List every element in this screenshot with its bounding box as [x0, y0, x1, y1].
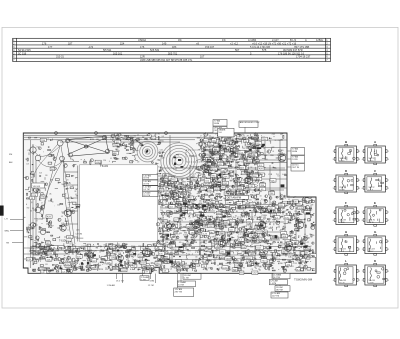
wire: [260, 192, 262, 194]
svg-text:R42: R42: [190, 221, 193, 223]
boxed label: [218, 208, 226, 212]
wire: [245, 167, 248, 170]
svg-text:165 161: 165 161: [113, 51, 123, 55]
resistor R87: [202, 198, 205, 201]
wire: [24, 258, 55, 260]
transistor Q177: [296, 257, 300, 261]
component value row: [32, 269, 148, 271]
resistor R81: [218, 181, 220, 182]
svg-text:22K: 22K: [186, 259, 188, 261]
junction: [223, 239, 226, 242]
resistor R22: [133, 150, 134, 152]
transistor Q103: [220, 245, 223, 248]
wire: [272, 229, 274, 232]
svg-text:150: 150: [312, 235, 314, 237]
wire: [247, 249, 249, 250]
svg-text:R9: R9: [243, 268, 245, 270]
capacitor C8: [33, 183, 36, 184]
resistor R141: [285, 174, 287, 177]
resistor R135: [256, 161, 259, 162]
wire: [195, 248, 197, 250]
wire: [51, 156, 55, 159]
resistor R119: [196, 182, 199, 185]
junction: [199, 258, 202, 261]
wire: [168, 212, 171, 214]
svg-text:507: 507: [235, 48, 240, 52]
wire: [191, 233, 193, 235]
wire: [216, 231, 220, 233]
capacitor C36: [256, 263, 258, 266]
component block: [27, 227, 31, 229]
transistor Q46: [245, 250, 248, 253]
wire: [218, 268, 221, 270]
boxed label: [244, 160, 250, 164]
wire: [197, 188, 199, 190]
wire: [35, 160, 37, 250]
capacitor C14: [120, 144, 123, 146]
wire: [176, 202, 179, 203]
junction: [25, 203, 28, 206]
transistor Q104: [290, 205, 294, 209]
capacitor C94: [162, 205, 165, 207]
boxed label: [233, 259, 241, 263]
junction: [309, 260, 312, 263]
boxed label: [210, 164, 216, 168]
component block: [256, 148, 259, 151]
wire: [209, 218, 211, 221]
resistor R4: [28, 137, 30, 138]
transistor Q98: [209, 161, 212, 164]
svg-text:6.8: 6.8: [30, 211, 32, 213]
wire: [220, 197, 221, 199]
wire: [157, 173, 160, 175]
boxed label: [188, 211, 194, 215]
junction: [294, 233, 297, 236]
component block: [209, 254, 212, 256]
wire: [275, 196, 281, 198]
wire: [240, 255, 243, 257]
capacitor C19: [131, 149, 134, 150]
component block: [41, 143, 43, 145]
svg-text:D6: D6: [203, 174, 205, 176]
wire: [112, 140, 136, 150]
svg-text:560: 560: [186, 249, 188, 251]
boxed label: [255, 225, 260, 229]
svg-text:-174: -174: [88, 45, 94, 49]
resistor R88: [285, 245, 286, 248]
wire: [44, 177, 46, 180]
wire: [179, 268, 181, 271]
transistor Q150: [204, 133, 208, 137]
transistor Q91: [177, 269, 181, 273]
svg-text:1K: 1K: [181, 220, 183, 222]
svg-text:6.8: 6.8: [62, 162, 64, 164]
svg-text:C31: C31: [266, 254, 269, 256]
wire: [155, 263, 158, 265]
resistor R138: [232, 159, 234, 160]
svg-text:AM: AM: [9, 161, 12, 164]
resistor R68: [163, 197, 166, 200]
capacitor C64: [176, 210, 178, 213]
L1 core dot: [146, 150, 149, 153]
dial cord wire: [44, 160, 63, 206]
junction: [217, 178, 220, 181]
junction: [184, 265, 187, 268]
wire: [239, 146, 241, 148]
wire: [119, 133, 121, 136]
wire: [286, 203, 288, 205]
junction: [245, 260, 248, 263]
wire: [210, 260, 212, 262]
svg-text:12V AM: 12V AM: [175, 288, 183, 291]
component block: [193, 226, 196, 229]
component block: [212, 177, 215, 179]
transistor Q132: [250, 259, 253, 262]
transistor Q180: [258, 229, 261, 232]
wire: [262, 266, 265, 268]
resistor R95: [245, 235, 246, 237]
svg-text:560: 560: [206, 270, 208, 272]
svg-text:3.8M: 3.8M: [150, 281, 155, 283]
transistor Q151: [160, 199, 163, 202]
junction: [193, 200, 196, 203]
wire: [220, 163, 222, 165]
svg-text:100: 100: [219, 141, 222, 143]
junction: [194, 183, 197, 186]
junction: [268, 227, 271, 230]
svg-text:TR4: TR4: [202, 262, 205, 264]
resistor R128: [256, 139, 257, 142]
wire: [161, 184, 163, 186]
svg-text:330: 330: [112, 249, 114, 251]
capacitor C31: [273, 253, 275, 256]
svg-text:0.01: 0.01: [118, 257, 121, 259]
capacitor C73: [166, 196, 168, 199]
wire: [293, 255, 296, 257]
transistor Q172: [235, 222, 238, 225]
svg-text:5%: 5%: [248, 161, 251, 163]
svg-text:100: 100: [166, 200, 168, 202]
wire: [227, 175, 229, 178]
wire: [134, 158, 137, 160]
svg-text:4: 4: [362, 159, 363, 161]
capacitor C143: [167, 238, 170, 240]
resistor R73: [211, 152, 212, 155]
wire: [159, 142, 161, 144]
wire: [225, 136, 227, 139]
wire: [299, 261, 302, 263]
svg-text:2.2K: 2.2K: [166, 190, 169, 192]
wire: [189, 266, 191, 268]
junction: [207, 219, 210, 222]
junction: [202, 145, 205, 148]
component block: [209, 174, 213, 176]
capacitor C130: [221, 256, 223, 259]
svg-text:0.5: 0.5: [228, 207, 230, 209]
wire: [226, 170, 228, 173]
junction: [305, 210, 308, 213]
svg-text:7: 7: [359, 280, 360, 282]
wire: [188, 231, 282, 233]
component block: [245, 212, 248, 214]
wire: [226, 269, 229, 272]
resistor R21: [90, 161, 91, 164]
boxed label: [191, 178, 197, 182]
wire: [179, 218, 182, 220]
svg-text:100: 100: [225, 227, 227, 229]
component block: [222, 239, 225, 241]
transistor Q175: [170, 202, 172, 204]
svg-text:4.7K: 4.7K: [127, 266, 130, 268]
svg-text:C7: C7: [100, 247, 102, 249]
transistor Q37: [151, 162, 153, 164]
svg-text:1M: 1M: [197, 252, 199, 254]
component block: [53, 238, 56, 240]
capacitor C74: [299, 213, 302, 215]
wire: [243, 252, 246, 255]
transistor Q79: [201, 184, 204, 187]
capacitor C55: [238, 144, 239, 147]
resistor R19: [117, 146, 119, 147]
resistor R161: [210, 188, 213, 189]
svg-text:0.5: 0.5: [265, 229, 267, 231]
wire: [258, 250, 260, 251]
wire: [24, 253, 70, 255]
component block: [240, 185, 244, 187]
wire: [10, 230, 23, 232]
junction: [199, 141, 202, 144]
wire: [230, 141, 232, 144]
wire: [201, 221, 204, 223]
junction: [278, 258, 281, 261]
wire: [285, 252, 288, 255]
resistor R126: [216, 177, 219, 180]
wire: [248, 137, 250, 140]
wire: [231, 192, 233, 194]
junction: [51, 138, 54, 141]
svg-text:1.26AM: 1.26AM: [178, 281, 186, 284]
junction: [31, 150, 34, 153]
junction: [163, 242, 166, 245]
transistor Q73: [273, 210, 276, 213]
transistor Q65: [188, 200, 190, 202]
svg-text:2: 2: [362, 280, 363, 282]
wire: [224, 176, 225, 178]
wire: [237, 168, 239, 170]
wire: [202, 234, 204, 237]
resistor R105: [253, 146, 255, 147]
svg-text:750: 750: [46, 196, 48, 198]
svg-text:6: 6: [333, 220, 334, 222]
svg-text:TR4: TR4: [205, 146, 208, 148]
junction: [294, 240, 297, 243]
wire: [196, 172, 198, 174]
resistor R2: [32, 258, 35, 259]
resistor R83: [207, 260, 210, 261]
wire: [182, 181, 184, 184]
component block: [131, 142, 134, 144]
svg-text:R42: R42: [208, 200, 211, 202]
dial cord wire: [64, 161, 73, 248]
boxed label: [206, 162, 212, 166]
junction: [239, 139, 242, 142]
svg-text:T6103: T6103: [100, 164, 108, 168]
wire: [306, 207, 308, 210]
wire: [190, 211, 191, 213]
boxed label: [257, 173, 265, 177]
wire: [89, 246, 91, 268]
svg-text:4: 4: [388, 249, 389, 251]
wire: [214, 159, 217, 161]
boxed label: [26, 258, 32, 262]
svg-text:8: 8: [362, 220, 363, 222]
dial cord stringing diagram: [30, 135, 110, 161]
resistor R51: [186, 236, 187, 239]
component block: [249, 147, 251, 149]
resistor R35: [204, 241, 205, 243]
wire: [71, 197, 74, 199]
transistor Q114: [297, 213, 300, 216]
svg-text:10K: 10K: [206, 135, 208, 137]
wire: [313, 212, 315, 214]
wire: [223, 183, 225, 185]
capacitor C70: [253, 176, 255, 179]
resistor R164: [165, 234, 168, 235]
wire: [300, 260, 302, 262]
wire: [288, 221, 291, 223]
wire: [155, 260, 159, 262]
wire: [219, 188, 221, 191]
boxed label: [208, 142, 214, 146]
junction: [159, 166, 162, 169]
transistor Q57: [175, 187, 177, 189]
wire: [299, 250, 301, 270]
junction: [131, 152, 134, 155]
junction: [248, 261, 251, 264]
svg-text:390: 390: [97, 259, 99, 261]
wire: [202, 167, 205, 169]
wire: [53, 205, 55, 207]
junction: [220, 161, 223, 164]
capacitor C148: [204, 142, 206, 145]
resistor R122: [218, 169, 220, 170]
wire: [23, 176, 26, 179]
junction: [263, 186, 266, 189]
resistor R99: [230, 221, 232, 222]
wire: [115, 136, 116, 139]
transistor Q33: [49, 221, 52, 224]
wire: [216, 234, 218, 235]
junction: [205, 260, 208, 263]
boxed label: [151, 136, 156, 140]
component block: [303, 198, 306, 200]
svg-text:1M: 1M: [180, 224, 182, 226]
transistor Q42: [265, 195, 268, 198]
transistor Q58: [283, 270, 286, 273]
wire: [232, 218, 234, 220]
transistor Q52: [242, 257, 245, 260]
wire: [238, 201, 240, 203]
resistor R31: [283, 254, 286, 255]
svg-text:22K: 22K: [306, 251, 308, 253]
wire: [109, 248, 111, 266]
wire: [184, 184, 186, 187]
component block: [206, 170, 209, 172]
svg-text:8.2K: 8.2K: [131, 161, 134, 163]
transistor Q26: [38, 147, 41, 150]
capacitor C106: [250, 172, 253, 174]
wire: [239, 140, 242, 142]
antenna coil L1 (spiral): [137, 141, 158, 162]
wire: [73, 165, 76, 168]
svg-text:1K: 1K: [115, 143, 117, 145]
wire: [213, 186, 215, 187]
svg-text:+2 +12: +2 +12: [230, 42, 239, 46]
wire: [239, 267, 241, 270]
capacitor C65: [312, 214, 314, 217]
capacitor C13: [125, 135, 128, 137]
boxed label: [206, 158, 214, 162]
transistor Q76: [161, 269, 163, 271]
wire: [249, 153, 252, 155]
resistor R174: [299, 222, 302, 223]
wire: [231, 211, 234, 213]
svg-text:12K: 12K: [49, 194, 51, 196]
boxed label: [221, 186, 226, 190]
svg-text:H: H: [345, 230, 347, 234]
boxed label: [30, 196, 35, 200]
wire: [112, 137, 115, 141]
wire: [254, 167, 256, 170]
capacitor C136: [205, 149, 207, 152]
resistor R28: [145, 138, 147, 139]
wire: [209, 181, 211, 183]
wire: [256, 147, 287, 149]
svg-text:R28: R28: [255, 250, 258, 252]
boxed label: [115, 140, 121, 144]
svg-text:1N34: 1N34: [202, 222, 205, 224]
transistor Q51: [170, 228, 172, 230]
boxed label: [214, 167, 219, 171]
junction: [226, 162, 229, 165]
svg-text:4.2TM: 4.2TM: [274, 277, 280, 279]
wire: [160, 177, 230, 179]
wire: [247, 134, 248, 137]
wire: [24, 135, 150, 137]
wire: [271, 209, 274, 211]
resistor R139: [247, 145, 250, 148]
svg-text:C7: C7: [228, 137, 230, 139]
wire: [257, 179, 259, 181]
component value row: [32, 246, 157, 248]
wire: [270, 255, 272, 259]
wire: [254, 139, 257, 141]
wire: [251, 201, 254, 204]
component block: [225, 244, 227, 246]
wire: [43, 184, 45, 186]
wire: [234, 193, 236, 196]
svg-text:310 31: 310 31: [56, 55, 64, 59]
component block: [295, 229, 299, 231]
resistor R101: [288, 212, 290, 213]
boxed label: [178, 185, 184, 189]
transistor Q83: [291, 231, 293, 233]
junction: [300, 204, 303, 207]
svg-text:2.2K: 2.2K: [159, 170, 162, 172]
boxed label: [248, 262, 254, 266]
wire: [218, 219, 220, 222]
capacitor C97: [183, 196, 186, 198]
